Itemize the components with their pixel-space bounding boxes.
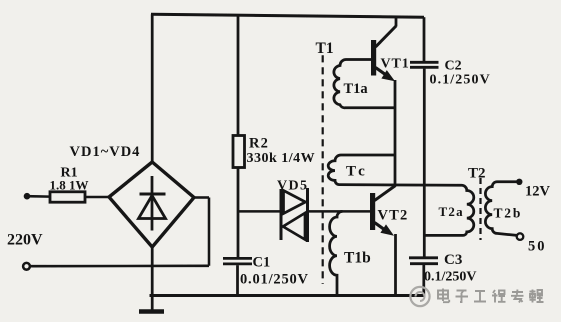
svg-text:T2: T2 <box>468 166 486 182</box>
svg-text:C2: C2 <box>445 59 462 74</box>
svg-text:T1a: T1a <box>344 81 369 97</box>
svg-text:Tc: Tc <box>346 164 368 180</box>
svg-text:VD5: VD5 <box>277 179 308 194</box>
svg-text:0.1/250V: 0.1/250V <box>430 73 491 88</box>
svg-text:0.01/250V: 0.01/250V <box>240 272 309 288</box>
svg-text:1.8 1W: 1.8 1W <box>50 178 89 193</box>
svg-text:T1: T1 <box>316 40 334 57</box>
svg-text:T2a: T2a <box>439 204 464 219</box>
svg-text:VD1~VD4: VD1~VD4 <box>70 144 141 160</box>
svg-text:VT2: VT2 <box>378 208 409 224</box>
svg-text:C3: C3 <box>444 252 462 268</box>
svg-text:330k 1/4W: 330k 1/4W <box>247 151 316 166</box>
svg-text:0.1/250V: 0.1/250V <box>424 270 477 285</box>
svg-text:C1: C1 <box>253 255 271 271</box>
svg-text:12V: 12V <box>525 184 551 200</box>
svg-text:T2b: T2b <box>494 206 523 221</box>
svg-text:T1b: T1b <box>344 250 371 267</box>
svg-text:220V: 220V <box>7 232 43 249</box>
svg-text:VT1: VT1 <box>381 57 410 72</box>
svg-text:R2: R2 <box>249 136 269 152</box>
svg-text:50: 50 <box>528 239 547 255</box>
